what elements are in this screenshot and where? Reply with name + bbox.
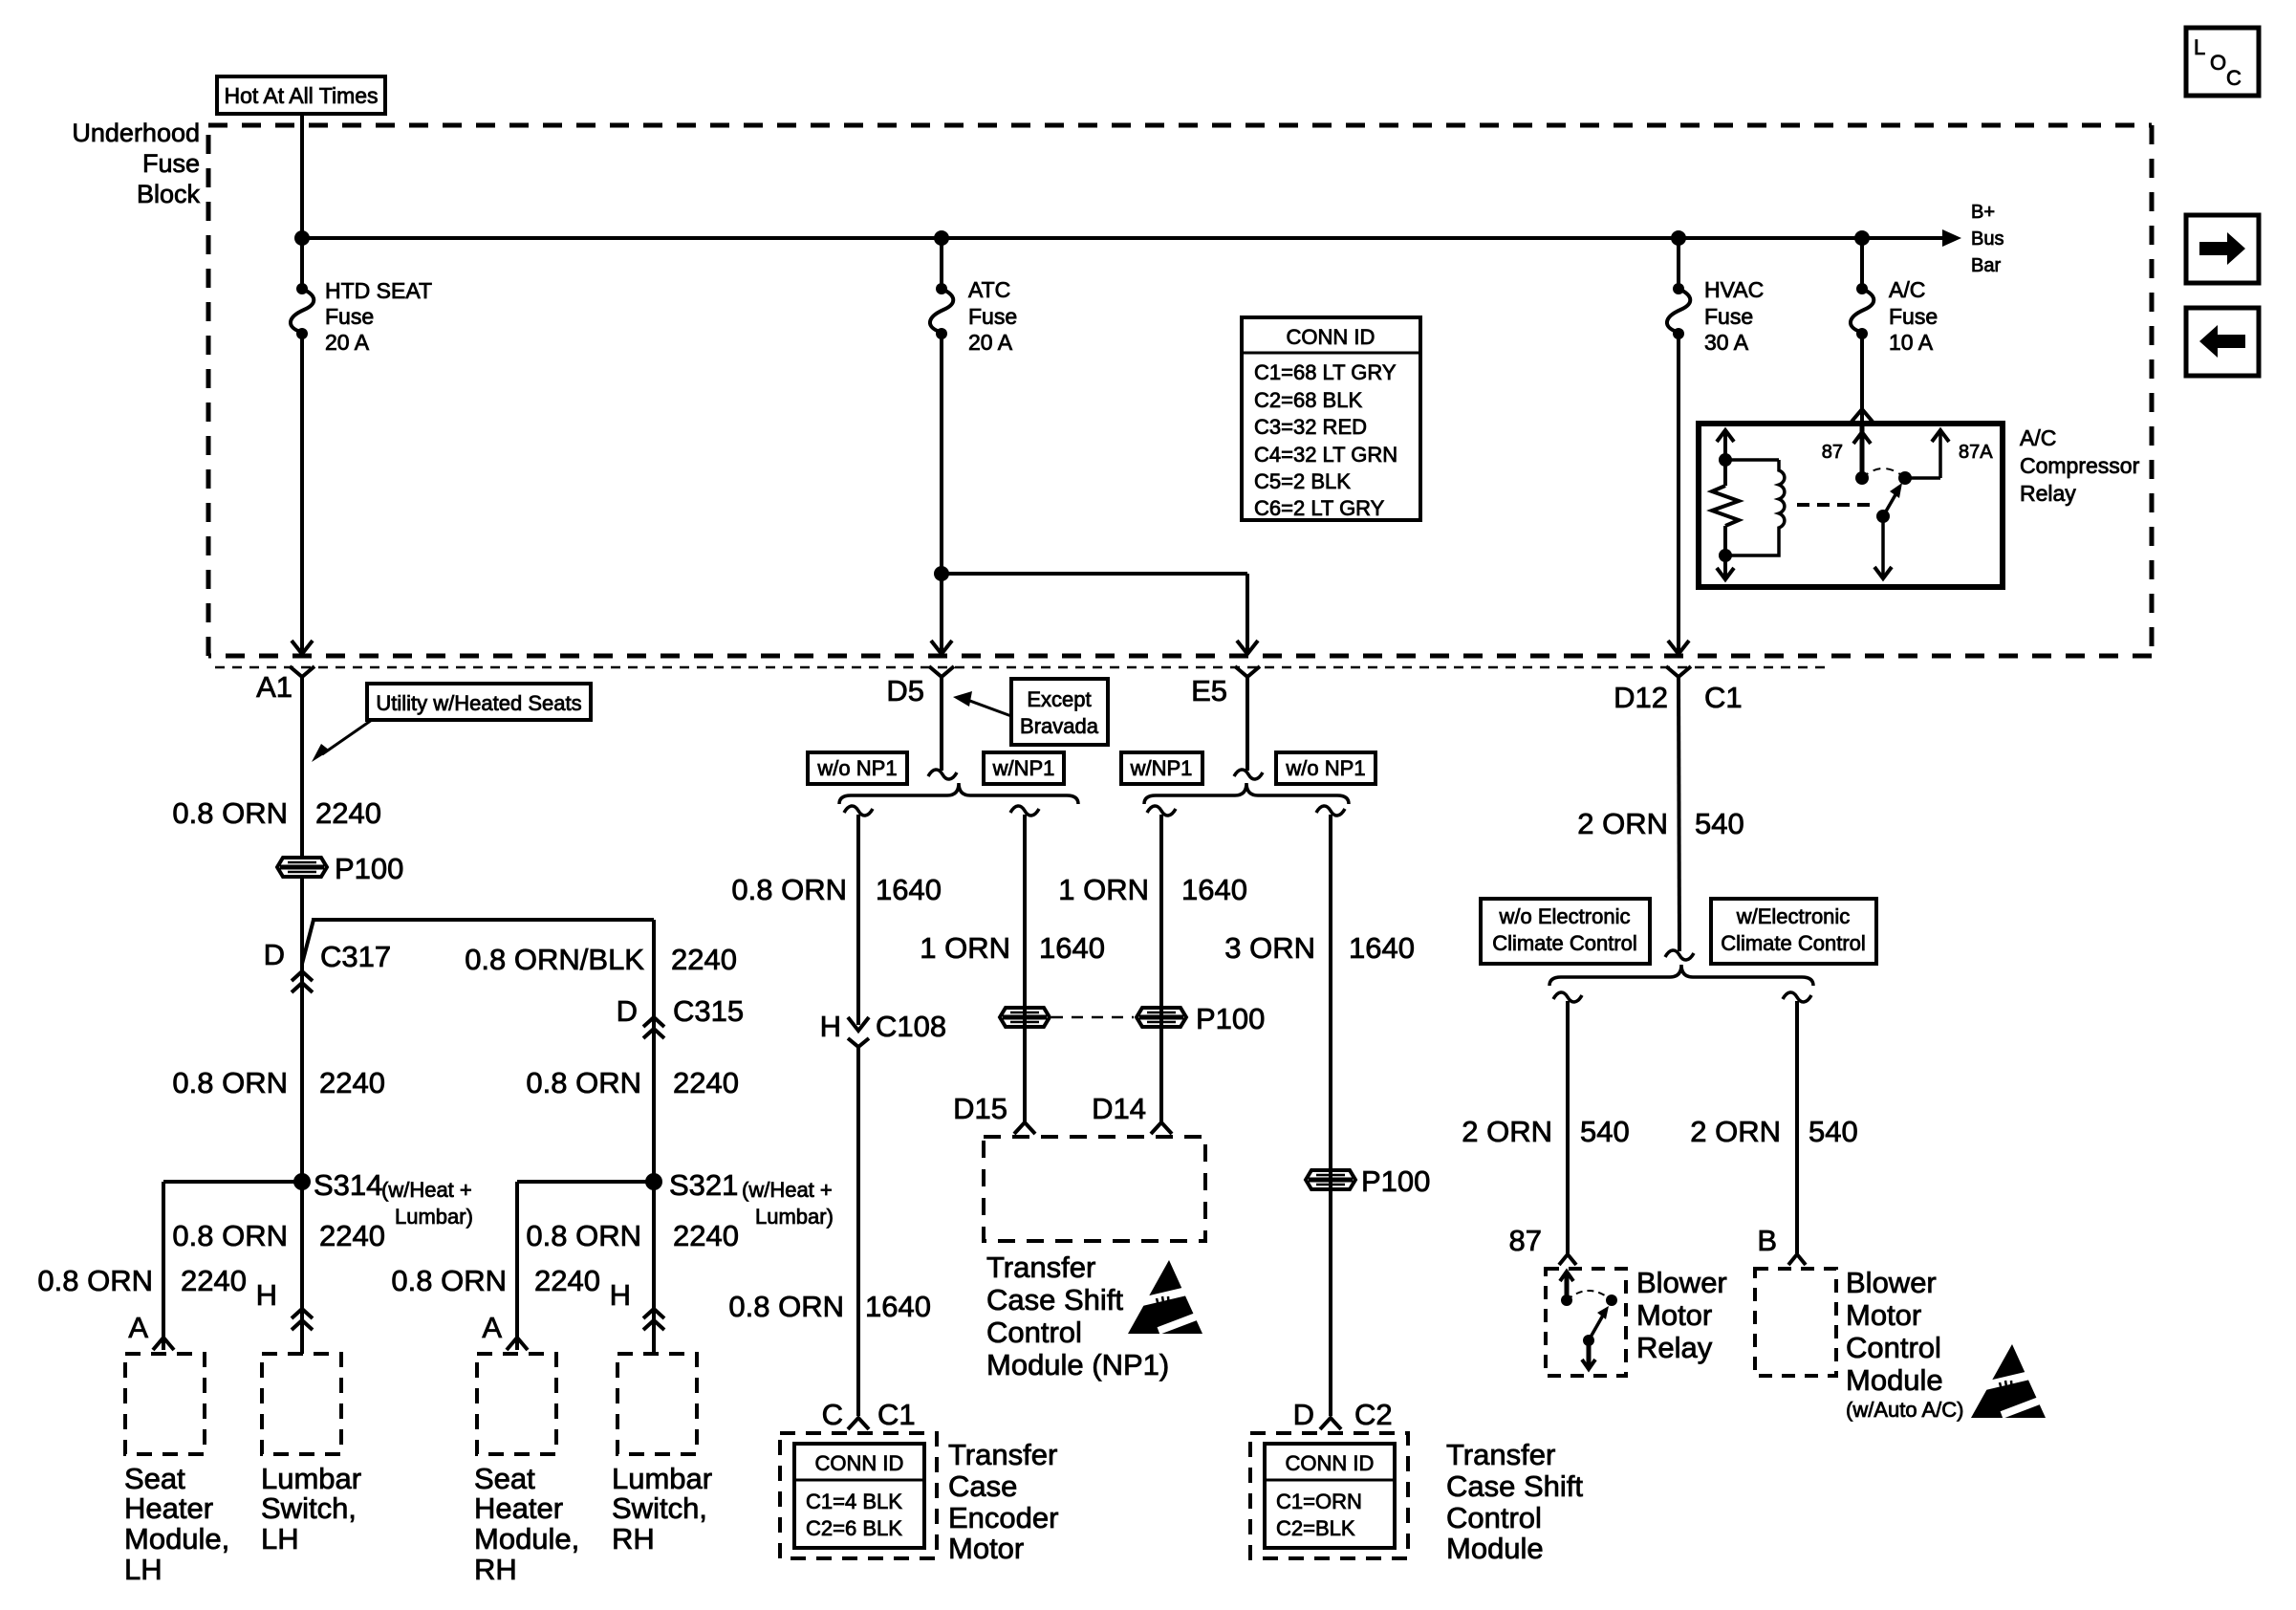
svg-text:(w/Auto A/C): (w/Auto A/C) [1846, 1398, 1963, 1422]
pin label A (seat heater LH) [128, 1311, 148, 1344]
svg-text:0.8 ORN: 0.8 ORN [37, 1264, 153, 1297]
svg-text:D15: D15 [953, 1092, 1007, 1125]
fuse: HTD SEAT Fuse 20 A [291, 283, 314, 339]
svg-text:L: L [2194, 35, 2205, 59]
label: ATC Fuse 20 A [968, 277, 1017, 355]
wire: B+ bus bar [302, 229, 1961, 247]
svg-text:540: 540 [1695, 807, 1744, 840]
wire: bus to ATC fuse [940, 238, 943, 289]
label: 2 ORN 540 (blower feed) [1577, 807, 1744, 840]
svg-text:C6=2 LT GRY: C6=2 LT GRY [1254, 496, 1385, 520]
wire: S314 branch to Seat Heater Module LH pin A [163, 1182, 302, 1350]
pin label 87 [1822, 442, 1843, 463]
wire: w/NP1 feed left (curl top) [1010, 806, 1039, 1121]
harness boundary thin dashed line [215, 666, 1826, 669]
splice P100 on w/NP1 left wire [1000, 1008, 1050, 1027]
svg-text:w/NP1: w/NP1 [1130, 756, 1193, 780]
svg-text:2240: 2240 [673, 1219, 739, 1252]
connector: blower control module entry chevron [1788, 1254, 1806, 1265]
svg-text:30 A: 30 A [1704, 330, 1749, 355]
svg-text:C317: C317 [320, 940, 391, 973]
label: D C317 [264, 938, 392, 973]
pin label H (lumbar LH) [256, 1278, 277, 1312]
label: Transfer Case Shift Control Module [1446, 1438, 1583, 1565]
label: 1 ORN 1640 (w/NP1 right) [1058, 873, 1247, 906]
svg-text:Module (NP1): Module (NP1) [986, 1348, 1169, 1382]
svg-text:C: C [822, 1398, 843, 1431]
junction: bus at ATC fuse [934, 230, 949, 246]
svg-text:Fuse: Fuse [968, 304, 1017, 329]
svg-text:C3=32 RED: C3=32 RED [1254, 415, 1367, 439]
pin label D15 [953, 1092, 1007, 1125]
wire: bus to HVAC fuse [1677, 238, 1680, 289]
wire: S321 branch to Seat Heater Module RH pin A [517, 1182, 654, 1350]
svg-text:(w/Heat +: (w/Heat + [381, 1178, 472, 1202]
label: Transfer Case Shift Control Module (NP1) [986, 1251, 1169, 1382]
svg-text:Hot At All Times: Hot At All Times [224, 83, 378, 108]
connector terminal D12 / C1 [1666, 666, 1691, 677]
svg-text:A: A [128, 1311, 148, 1344]
label: 1 ORN 1640 (w/NP1 left) [920, 931, 1105, 965]
junction: bus at HVAC fuse [1671, 230, 1686, 246]
LOC reference box [2186, 28, 2259, 96]
pin label B (blower motor control module) [1757, 1224, 1777, 1257]
svg-text:20 A: 20 A [325, 330, 370, 355]
svg-text:S321: S321 [669, 1168, 738, 1202]
junction: bus at HTD SEAT fuse [294, 230, 310, 246]
Underhood Fuse Block dashed enclosure [208, 125, 2152, 656]
svg-text:D: D [1293, 1398, 1314, 1431]
svg-text:Transfer: Transfer [948, 1438, 1057, 1471]
option split curl at D5 [928, 677, 957, 779]
svg-text:C1: C1 [877, 1398, 916, 1431]
label: P100 [335, 852, 403, 885]
junction: ATC branch split [934, 566, 949, 581]
svg-text:Seat: Seat [474, 1462, 535, 1495]
svg-text:E5: E5 [1191, 674, 1227, 707]
svg-text:Lumbar: Lumbar [261, 1462, 361, 1495]
svg-text:O: O [2210, 51, 2226, 75]
pin label 87 (blower motor relay) [1509, 1224, 1542, 1257]
svg-text:C1=4 BLK: C1=4 BLK [806, 1490, 902, 1513]
pin label H (lumbar RH) [610, 1278, 631, 1312]
component: Blower Motor Control Module [1755, 1269, 1836, 1376]
label: H C108 [820, 1010, 947, 1043]
label: 0.8 ORN 2240 (S314 to seat heater LH) [37, 1264, 247, 1297]
svg-text:Switch,: Switch, [261, 1491, 357, 1525]
svg-text:D: D [617, 994, 638, 1028]
svg-text:Transfer: Transfer [986, 1251, 1095, 1284]
svg-text:Lumbar: Lumbar [612, 1462, 712, 1495]
wire: A1 to P100 [300, 677, 304, 857]
svg-text:1640: 1640 [1181, 873, 1247, 906]
label: A/C Compressor Relay [2020, 425, 2140, 506]
label: 0.8 ORN 2240 (LH seat circuit) [172, 1066, 385, 1099]
callout: Utility w/Heated Seats [312, 684, 591, 762]
svg-text:w/Electronic: w/Electronic [1736, 904, 1851, 928]
relay actuation dashed link [1797, 503, 1872, 507]
connector terminal E5 [1235, 666, 1260, 677]
option brace under E5 [1144, 783, 1349, 804]
component: Transfer Case Shift Control Module connector box [1250, 1433, 1408, 1558]
svg-text:Climate Control: Climate Control [1492, 931, 1637, 955]
connector: NP1 module pin D15 entry [1014, 1122, 1035, 1134]
svg-text:10 A: 10 A [1889, 330, 1934, 355]
svg-text:CONN ID: CONN ID [815, 1451, 904, 1475]
label: 0.8 ORN 2240 (A1 feed) [172, 796, 381, 830]
pin label C / connector C1 (encoder motor) [822, 1398, 916, 1431]
svg-text:540: 540 [1809, 1115, 1858, 1148]
wire: branch to terminal E5 [942, 574, 1258, 654]
label: 0.8 ORN 1640 (encoder motor lower) [728, 1290, 931, 1323]
svg-text:ATC: ATC [968, 277, 1010, 302]
svg-text:Control: Control [1446, 1501, 1542, 1534]
label: 0.8 ORN 2240 (RH seat circuit) [526, 1066, 739, 1099]
svg-text:Heater: Heater [474, 1491, 563, 1525]
svg-text:C2=BLK: C2=BLK [1276, 1516, 1355, 1540]
svg-text:Utility w/Heated Seats: Utility w/Heated Seats [376, 691, 581, 715]
svg-text:Case: Case [948, 1469, 1017, 1503]
option brace under D12 [1549, 965, 1813, 986]
svg-text:Switch,: Switch, [612, 1491, 707, 1525]
svg-text:A: A [482, 1311, 502, 1344]
svg-text:Lumbar): Lumbar) [395, 1205, 473, 1229]
ESD sensitivity icon (blower control module) [1971, 1344, 2049, 1418]
label: D5 [886, 674, 924, 707]
label: 0.8 ORN 2240 (S321 to seat heater RH) [391, 1264, 600, 1297]
wire: blower motor control module feed (curl top) [1783, 992, 1811, 1253]
fuse: A/C Fuse 10 A [1851, 283, 1874, 339]
label: Seat Heater Module, LH [124, 1462, 229, 1586]
wire: HVAC fuse to terminal D12 [1668, 334, 1689, 654]
wire: w/o NP1 encoder motor feed (curl top) [844, 806, 873, 1025]
label: E5 [1191, 674, 1227, 707]
svg-text:C108: C108 [876, 1010, 946, 1043]
svg-text:H: H [820, 1010, 841, 1043]
svg-text:w/NP1: w/NP1 [992, 756, 1055, 780]
svg-text:D5: D5 [886, 674, 924, 707]
svg-text:Motor: Motor [948, 1532, 1024, 1565]
wire: blower motor relay feed (curl top) [1553, 992, 1582, 1253]
svg-text:2240: 2240 [534, 1264, 600, 1297]
component: A/C Compressor Relay [1699, 424, 2003, 587]
label: Blower Motor Control Module (w/Auto A/C) [1846, 1266, 1963, 1422]
svg-text:1 ORN: 1 ORN [1058, 873, 1149, 906]
label: 0.8 ORN 1640 (w/o NP1 left upper) [731, 873, 942, 906]
svg-text:1 ORN: 1 ORN [920, 931, 1010, 965]
svg-text:C4=32 LT GRN: C4=32 LT GRN [1254, 443, 1397, 467]
svg-text:H: H [610, 1278, 631, 1312]
svg-text:Bravada: Bravada [1020, 714, 1099, 738]
svg-text:C1=ORN: C1=ORN [1276, 1490, 1362, 1513]
svg-text:2 ORN: 2 ORN [1577, 807, 1668, 840]
component: Lumbar Switch RH [617, 1354, 697, 1454]
option box: w/o Electronic Climate Control [1481, 899, 1650, 964]
relay switch (87 / 87A contacts) [1853, 424, 1949, 578]
splice S314 [293, 1173, 311, 1190]
svg-text:RH: RH [612, 1522, 655, 1556]
option box: w/NP1 (right) [1121, 752, 1202, 784]
svg-text:(w/Heat +: (w/Heat + [742, 1178, 833, 1202]
svg-text:0.8 ORN: 0.8 ORN [172, 1066, 288, 1099]
wire: S321 to Lumbar Switch RH pin H [652, 1182, 656, 1354]
svg-text:C315: C315 [673, 994, 744, 1028]
svg-text:Fuse: Fuse [1704, 304, 1753, 329]
svg-text:Control: Control [1846, 1331, 1941, 1364]
component: Blower Motor Relay [1546, 1269, 1626, 1376]
label: A1 [256, 670, 292, 704]
label: Transfer Case Encoder Motor [948, 1438, 1058, 1565]
svg-text:Fuse: Fuse [325, 304, 374, 329]
label: D C315 [617, 994, 745, 1028]
callout: Except Bravada [953, 679, 1108, 745]
option split curl at E5 [1234, 677, 1263, 779]
pin label D / connector C2 (shift module) [1293, 1398, 1393, 1431]
label: HTD SEAT Fuse 20 A [325, 278, 432, 355]
connector C315 (pin D) [643, 1017, 664, 1038]
connector: encoder motor entry chevron [848, 1418, 869, 1429]
wire: w/NP1 feed right (curl top) [1147, 806, 1176, 1121]
connector: blower relay entry chevron [1559, 1254, 1576, 1265]
label: P100 [1196, 1002, 1265, 1035]
option brace under D5 [839, 783, 1078, 804]
relay contacts inside Blower Motor Relay [1560, 1272, 1617, 1369]
wire: branch to C315 via C317 pin D [302, 920, 654, 1182]
component: Transfer Case Encoder Motor connector box [780, 1433, 937, 1558]
label: HVAC Fuse 30 A [1704, 277, 1764, 355]
svg-text:Motor: Motor [1636, 1298, 1712, 1332]
label: S321 (w/Heat + Lumbar) [669, 1168, 834, 1229]
svg-text:D12: D12 [1614, 681, 1668, 714]
wire: C108 to encoder motor [856, 1048, 860, 1416]
label: 2 ORN 540 (control module feed) [1690, 1115, 1857, 1148]
svg-text:C1: C1 [1704, 681, 1743, 714]
dashed tie between P100 splices [1051, 1016, 1134, 1019]
svg-text:0.8 ORN: 0.8 ORN [728, 1290, 844, 1323]
svg-text:1640: 1640 [1349, 931, 1415, 965]
svg-text:0.8 ORN: 0.8 ORN [172, 796, 288, 830]
svg-text:2 ORN: 2 ORN [1690, 1115, 1781, 1148]
label box: Hot At All Times [217, 76, 385, 114]
svg-text:Relay: Relay [1636, 1331, 1713, 1364]
svg-text:B+: B+ [1971, 202, 1995, 223]
connector: relay entry chevron [1852, 409, 1873, 422]
svg-text:1640: 1640 [1039, 931, 1105, 965]
label: 2 ORN 540 (relay feed) [1462, 1115, 1629, 1148]
label: A/C Fuse 10 A [1889, 277, 1938, 355]
svg-text:Blower: Blower [1846, 1266, 1937, 1299]
component: Lumbar Switch LH [262, 1354, 341, 1454]
component: Transfer Case Shift Control Module (NP1) [984, 1137, 1205, 1241]
connector terminal A1 [290, 666, 314, 677]
connector terminal D5 [929, 666, 954, 677]
svg-text:C2=6 BLK: C2=6 BLK [806, 1516, 902, 1540]
svg-text:P100: P100 [335, 852, 403, 885]
svg-text:Blower: Blower [1636, 1266, 1727, 1299]
splice P100 on shift module wire [1306, 1170, 1355, 1189]
label: Blower Motor Relay [1636, 1266, 1727, 1364]
svg-text:w/o Electronic: w/o Electronic [1499, 904, 1631, 928]
svg-text:LH: LH [261, 1522, 299, 1556]
connector C317 (pin D) [292, 971, 313, 992]
svg-text:Module: Module [1446, 1532, 1544, 1565]
reference table: CONN ID [1242, 317, 1420, 520]
wire: bus to A/C fuse [1860, 238, 1864, 289]
pin label 87A [1959, 442, 1993, 463]
svg-text:0.8 ORN: 0.8 ORN [391, 1264, 507, 1297]
fuse: ATC Fuse 20 A [930, 283, 953, 339]
svg-text:1640: 1640 [876, 873, 942, 906]
label: Seat Heater Module, RH [474, 1462, 579, 1586]
wire: w/o NP1 shift module feed (curl top) [1316, 806, 1345, 1416]
svg-text:Motor: Motor [1846, 1298, 1921, 1332]
svg-text:Module,: Module, [474, 1522, 579, 1556]
svg-text:2240: 2240 [671, 943, 737, 976]
svg-text:2 ORN: 2 ORN [1462, 1115, 1552, 1148]
connector: NP1 module pin D14 entry [1151, 1122, 1172, 1134]
arrow box: continue left [2186, 308, 2259, 376]
option box: w/o NP1 (left) [808, 752, 907, 784]
svg-text:w/o NP1: w/o NP1 [816, 756, 897, 780]
label: Underhood Fuse Block [72, 119, 200, 208]
svg-text:HVAC: HVAC [1704, 277, 1764, 302]
svg-text:Control: Control [986, 1316, 1082, 1349]
svg-text:Module,: Module, [124, 1522, 229, 1556]
svg-text:P100: P100 [1196, 1002, 1265, 1035]
splice P100 (seat feed) [277, 858, 327, 877]
label: Lumbar Switch, RH [612, 1462, 712, 1556]
svg-text:P100: P100 [1361, 1164, 1430, 1198]
svg-text:H: H [256, 1278, 277, 1312]
component: Seat Heater Module RH [477, 1354, 556, 1454]
wire: A/C fuse to compressor relay [1860, 334, 1864, 422]
wire: D12 to climate control option split [1665, 677, 1694, 960]
splice P100 on w/NP1 right wire [1137, 1008, 1186, 1027]
label: 0.8 ORN 2240 (S314 to lumbar LH) [172, 1219, 385, 1252]
svg-text:3 ORN: 3 ORN [1224, 931, 1315, 965]
svg-text:Except: Except [1027, 687, 1091, 711]
relay coil circuit (resistor and winding) [1712, 430, 1785, 579]
svg-text:A1: A1 [256, 670, 292, 704]
svg-text:87: 87 [1822, 442, 1843, 463]
svg-text:C1=68 LT GRY: C1=68 LT GRY [1254, 360, 1397, 384]
connector: lumbar switch RH entry [643, 1309, 664, 1330]
connector: seat heater LH entry [153, 1338, 174, 1350]
connector: seat heater RH entry [507, 1338, 528, 1350]
label: P100 [1361, 1164, 1430, 1198]
connector: shift module entry chevron [1320, 1418, 1341, 1429]
svg-text:2240: 2240 [319, 1219, 385, 1252]
svg-text:0.8 ORN: 0.8 ORN [172, 1219, 288, 1252]
label: 3 ORN 1640 (w/o NP1 right) [1224, 931, 1415, 965]
svg-text:B: B [1757, 1224, 1777, 1257]
fuse: HVAC Fuse 30 A [1667, 283, 1690, 339]
svg-text:87A: 87A [1959, 442, 1993, 463]
svg-text:0.8 ORN/BLK: 0.8 ORN/BLK [465, 943, 644, 976]
option box: w/NP1 (left) [984, 752, 1064, 784]
wire: battery feed from Hot At All Times box [300, 114, 304, 289]
svg-text:Encoder: Encoder [948, 1501, 1058, 1534]
svg-text:S314: S314 [314, 1168, 382, 1202]
svg-text:C2: C2 [1354, 1398, 1393, 1431]
svg-text:C: C [2226, 66, 2242, 90]
label: D12 C1 [1614, 681, 1743, 714]
svg-text:Bus: Bus [1971, 228, 2004, 250]
label: 0.8 ORN/BLK 2240 (C317-C315 jumper) [465, 943, 737, 976]
svg-text:Bar: Bar [1971, 255, 2001, 276]
connector: lumbar switch LH entry [292, 1309, 313, 1330]
option box: w/o NP1 (right) [1276, 752, 1375, 784]
junction: bus at A/C fuse [1854, 230, 1870, 246]
pin label D14 [1092, 1092, 1146, 1125]
svg-text:1640: 1640 [865, 1290, 931, 1323]
wire: S314 to Lumbar Switch LH pin H [300, 1182, 304, 1354]
wire: P100 to S314 [300, 878, 304, 1182]
splice S321 [645, 1173, 662, 1190]
label: Lumbar Switch, LH [261, 1462, 361, 1556]
svg-text:Transfer: Transfer [1446, 1438, 1555, 1471]
svg-text:0.8 ORN: 0.8 ORN [526, 1219, 641, 1252]
ESD sensitivity icon (NP1 module) [1128, 1260, 1206, 1334]
svg-text:Fuse: Fuse [1889, 304, 1938, 329]
label: B+ Bus Bar [1971, 202, 2004, 276]
svg-text:Case Shift: Case Shift [1446, 1469, 1583, 1503]
svg-text:87: 87 [1509, 1224, 1542, 1257]
svg-text:540: 540 [1580, 1115, 1630, 1148]
option box: w/Electronic Climate Control [1711, 899, 1876, 964]
svg-text:Compressor: Compressor [2020, 453, 2140, 478]
svg-text:Fuse: Fuse [142, 149, 200, 178]
svg-text:Seat: Seat [124, 1462, 185, 1495]
svg-text:RH: RH [474, 1553, 517, 1586]
connector C108 (pin H) [848, 1017, 869, 1047]
label: S314 (w/Heat + Lumbar) [314, 1168, 473, 1229]
svg-text:Relay: Relay [2020, 481, 2076, 506]
wire: ATC fuse to terminal D5 [931, 334, 952, 654]
svg-text:C5=2 BLK: C5=2 BLK [1254, 469, 1351, 493]
component: Seat Heater Module LH [125, 1354, 205, 1454]
svg-text:HTD SEAT: HTD SEAT [325, 278, 432, 303]
svg-text:2240: 2240 [181, 1264, 247, 1297]
svg-text:A/C: A/C [2020, 425, 2056, 450]
svg-text:Heater: Heater [124, 1491, 213, 1525]
svg-text:w/o NP1: w/o NP1 [1285, 756, 1365, 780]
arrow box: continue right [2186, 215, 2259, 283]
svg-text:Case Shift: Case Shift [986, 1283, 1123, 1316]
svg-text:CONN ID: CONN ID [1286, 1451, 1375, 1475]
wire: HTD SEAT fuse to terminal A1 [292, 334, 313, 654]
svg-text:2240: 2240 [319, 1066, 385, 1099]
label: 0.8 ORN 2240 (S321 to lumbar RH) [526, 1219, 739, 1252]
svg-text:A/C: A/C [1889, 277, 1925, 302]
svg-text:CONN ID: CONN ID [1287, 325, 1375, 349]
svg-text:Module: Module [1846, 1363, 1943, 1397]
svg-text:20 A: 20 A [968, 330, 1013, 355]
svg-text:C2=68 BLK: C2=68 BLK [1254, 388, 1362, 412]
svg-text:Underhood: Underhood [72, 119, 200, 147]
svg-text:LH: LH [124, 1553, 162, 1586]
svg-text:Climate Control: Climate Control [1721, 931, 1866, 955]
svg-text:Lumbar): Lumbar) [755, 1205, 834, 1229]
svg-text:Block: Block [137, 180, 201, 208]
pin label A (seat heater RH) [482, 1311, 502, 1344]
svg-text:2240: 2240 [673, 1066, 739, 1099]
svg-text:D14: D14 [1092, 1092, 1146, 1125]
svg-text:0.8 ORN: 0.8 ORN [731, 873, 847, 906]
svg-text:D: D [264, 938, 285, 971]
svg-text:0.8 ORN: 0.8 ORN [526, 1066, 641, 1099]
svg-text:2240: 2240 [315, 796, 381, 830]
